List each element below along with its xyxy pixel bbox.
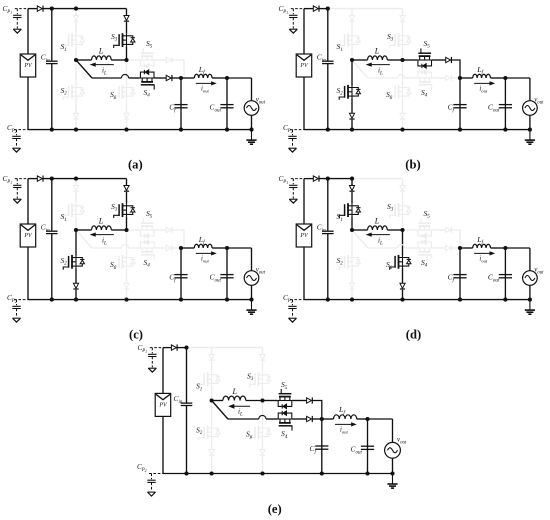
panel e: AC source v_out <box>385 442 401 458</box>
panel c: wire top rail right of D_in <box>43 178 127 180</box>
panel b: ground <box>529 130 531 140</box>
panel d: wire L_f to C_out <box>491 247 506 249</box>
panel a: dashed wire C_P2 to bottom rail <box>14 129 28 131</box>
panel a: input diode D_in <box>37 6 42 11</box>
panel d: wire L left lead <box>352 229 368 231</box>
panel c: wire PV to bottom rail <box>27 247 29 300</box>
panel a: wire top rail <box>28 8 37 10</box>
panel e: switch S5 path (wire + MOSFET + diode) <box>263 400 278 402</box>
svg-text:L: L <box>232 387 238 396</box>
panel b: wire L_f to C_out <box>491 77 506 79</box>
panel d: switch S1 branch (diode + MOSFET) <box>351 179 353 186</box>
panel c: junction dots <box>50 177 54 181</box>
panel e: inductor L <box>223 396 246 400</box>
panel c: wire L right lead <box>111 229 126 231</box>
panel c: AC source v_out <box>244 271 259 286</box>
panel e: capacitor C_in <box>186 348 188 404</box>
panel c: wire L_f to C_out <box>212 247 227 249</box>
panel c: dashed wire C_P2 to bottom rail <box>14 299 28 301</box>
panel a: wire L_f to C_out <box>212 77 227 79</box>
panel b: wire left rail <box>303 9 305 54</box>
panel b: wire v_out to bottom rail <box>529 115 531 129</box>
svg-text:L: L <box>98 46 104 55</box>
panel d: PV source <box>296 224 312 247</box>
panel d: wire L right lead <box>387 229 402 231</box>
panel d: capacitor C_f <box>459 248 461 300</box>
panel e: ground <box>392 474 394 484</box>
panel d: dashed wire C_P2 to bottom rail <box>290 299 304 301</box>
panel e: switch S6 branch (MOSFET + diode) [ghost] <box>262 401 264 427</box>
panel a: AC source v_out <box>244 101 259 116</box>
panel e: dashed wire C_P1 to top rail <box>150 347 163 349</box>
svg-text:PV: PV <box>23 63 33 69</box>
panel e: switch S1 branch (diode + MOSFET) [ghost] <box>211 348 213 355</box>
panel d: junction dots <box>326 177 330 181</box>
panel d: switch S6 branch (MOSFET + diode) <box>402 230 404 256</box>
panel c: inductor L_f <box>181 247 194 249</box>
panel c: input diode D_in <box>37 176 42 181</box>
panel b: switch S6 branch (MOSFET + diode) [ghost] <box>402 60 404 86</box>
panel c: wire top rail <box>28 178 37 180</box>
panel c: wire bottom rail <box>28 299 181 301</box>
panel a: wire L left lead <box>76 59 92 61</box>
panel b: switch S5 path (MOSFET + diode) <box>403 59 418 61</box>
panel c: wire v_out to bottom rail <box>251 285 253 299</box>
panel b: input diode D_in <box>313 6 318 11</box>
panel e: ghost wire top rail remainder <box>187 347 263 349</box>
panel d: wire top rail right of D_in <box>319 178 352 180</box>
panel e: dashed wire C_P2 to bottom rail <box>149 473 163 475</box>
panel b: wire L right lead <box>387 59 402 61</box>
panel c: switch S1 branch (diode + MOSFET) [ghost] <box>75 179 77 186</box>
panel a: PV source <box>20 54 36 77</box>
panel b: junction dots <box>326 7 330 11</box>
panel b: wire top rail <box>304 8 313 10</box>
panel e: wire L_f to C_out <box>357 418 368 420</box>
panel c: capacitor C_f <box>180 248 182 300</box>
panel c: wire L left lead <box>76 229 92 231</box>
panel b: switch S2 branch (MOSFET + diode) <box>351 60 353 86</box>
panel b: wire L left lead <box>352 59 368 61</box>
panel a: capacitor C_f <box>180 78 182 130</box>
panel d: switch S5 path (MOSFET + diode) [ghost] <box>403 229 418 231</box>
panel a: wire to v_out <box>227 77 252 79</box>
panel b: inductor L_f <box>460 77 473 79</box>
panel d: switch S2 branch (MOSFET + diode) [ghost] <box>351 230 353 256</box>
panel c: capacitor C_out <box>226 248 228 300</box>
svg-text:L: L <box>98 216 104 225</box>
panel e: switch S4 path (diagonal + hop + MOSFET + diode) <box>212 401 228 420</box>
panel b: capacitor C_in <box>327 9 329 62</box>
panel e: capacitor C_f <box>321 419 323 474</box>
panel d: wire top rail <box>304 178 313 180</box>
panel b: capacitor C_f <box>459 78 461 130</box>
panel d: current arrow i_L <box>371 234 390 236</box>
panel d: ground <box>529 300 531 310</box>
panel a: dashed wire C_P1 to top rail <box>15 8 28 10</box>
svg-text:(a): (a) <box>128 157 143 171</box>
panel b: AC source v_out <box>523 101 538 116</box>
svg-text:PV: PV <box>158 403 168 409</box>
panel d: switch S3 branch (diode + MOSFET) [ghost] <box>402 179 404 186</box>
panel b: inductor L <box>368 56 388 60</box>
panel b: switch S3 branch (diode + MOSFET) [ghost] <box>402 9 404 16</box>
panel c: wire left rail <box>27 179 29 224</box>
svg-text:L: L <box>374 216 380 225</box>
panel b: wire top rail right of D_in <box>319 8 328 10</box>
panel b: switch S4 path (diagonal + MOSFET + diode) [ghost] <box>352 60 368 78</box>
panel e: switch S3 branch (diode + MOSFET) [ghost] <box>262 348 264 355</box>
panel a: current arrow i_out <box>196 82 213 84</box>
panel e: switch S2 branch (MOSFET + diode) [ghost] <box>211 401 213 427</box>
panel d: wire bottom rail <box>304 299 460 301</box>
panel c: capacitor C_in <box>51 179 53 232</box>
panel a: switch S4 path (diagonal + MOSFET + diode) <box>76 60 92 78</box>
panel a: wire left rail <box>27 9 29 54</box>
panel d: wire v_out to bottom rail <box>529 285 531 299</box>
panel e: PV source <box>155 393 171 416</box>
panel a: capacitor C_out <box>226 78 228 130</box>
panel e: wire L right lead <box>246 400 263 402</box>
svg-text:L: L <box>374 46 380 55</box>
svg-text:(e): (e) <box>268 502 282 516</box>
panel e: wire top rail <box>163 347 171 349</box>
panel e: current arrow i_L <box>233 405 250 407</box>
panel c: wire to v_out <box>227 247 252 249</box>
panel b: capacitor C_out <box>504 78 506 130</box>
svg-text:PV: PV <box>299 233 309 239</box>
panel a: switch S5 path (MOSFET + diode) [ghost] <box>127 59 140 61</box>
panel e: wire PV to bottom rail <box>162 416 164 473</box>
panel a: wire bottom rail <box>28 129 181 131</box>
panel a: switch S1 branch (diode + MOSFET) [ghost] <box>75 9 77 16</box>
panel d: current arrow i_out <box>474 252 491 254</box>
panel a: inductor L_f <box>181 77 194 79</box>
panel d: wire left rail <box>303 179 305 224</box>
panel e: wire left rail <box>162 348 164 394</box>
panel b: wire bottom rail <box>304 129 460 131</box>
panel d: inductor L_f <box>460 247 473 249</box>
panel d: inductor L <box>368 226 388 230</box>
panel e: wire top rail right of D_in <box>177 347 187 349</box>
panel d: wire to v_out <box>505 247 530 249</box>
panel c: switch S5 path (MOSFET + diode) [ghost] <box>127 229 140 231</box>
panel a: inductor L <box>92 56 112 60</box>
panel c: dashed wire C_P1 to top rail <box>15 178 28 180</box>
panel c: PV source <box>20 224 36 247</box>
panel e: wire to v_out <box>368 418 393 420</box>
panel b: wire to v_out <box>505 77 530 79</box>
panel e: wire L left lead <box>212 400 223 402</box>
panel a: junction dots <box>50 7 54 11</box>
panel c: inductor L <box>92 226 112 230</box>
svg-text:PV: PV <box>23 233 33 239</box>
panel c: switch S4 path (diagonal + MOSFET + diode) [ghost] <box>76 230 92 248</box>
svg-text:(d): (d) <box>406 328 421 342</box>
panel a: wire L right lead <box>111 59 126 61</box>
panel d: AC source v_out <box>523 271 538 286</box>
panel d: ghost wire top rail remainder <box>352 178 403 180</box>
panel b: wire PV to bottom rail <box>303 77 305 130</box>
panel a: wire top rail right of D_in <box>43 8 127 10</box>
panel d: input diode D_in <box>313 176 318 181</box>
panel d: dashed wire C_P1 to top rail <box>291 178 304 180</box>
panel d: capacitor C_in <box>327 179 329 232</box>
panel b: ghost wire top rail remainder <box>328 8 403 10</box>
panel e: wire bottom rail <box>163 473 393 475</box>
panel a: capacitor C_in <box>51 9 53 62</box>
svg-text:PV: PV <box>299 63 309 69</box>
panel a: wire PV to bottom rail <box>27 77 29 130</box>
panel b: current arrow i_out <box>474 82 491 84</box>
panel b: PV source <box>296 54 312 77</box>
panel d: switch S4 path (diagonal + MOSFET + diode) [ghost] <box>352 230 368 248</box>
panel d: wire PV to bottom rail <box>303 247 305 300</box>
panel e: junction dots <box>184 346 188 350</box>
panel a: current arrow i_L <box>95 64 114 66</box>
svg-text:(b): (b) <box>405 157 420 171</box>
panel e: inductor L_f <box>322 418 334 420</box>
panel c: current arrow i_L <box>95 234 114 236</box>
panel a: wire v_out to bottom rail <box>251 115 253 129</box>
panel e: capacitor C_out <box>367 419 369 474</box>
panel c: current arrow i_out <box>196 252 213 254</box>
panel c: switch S6 branch (MOSFET + diode) [ghost] <box>126 230 128 256</box>
panel e: input diode D_in <box>171 345 176 350</box>
panel b: switch S1 branch (diode + MOSFET) [ghost] <box>351 9 353 16</box>
panel c: switch S3 branch (diode + MOSFET) <box>126 179 128 186</box>
panel a: ground <box>251 130 253 140</box>
panel e: wire v_out to bottom rail <box>392 458 394 473</box>
panel a: switch S2 branch (MOSFET + diode) [ghost] <box>75 60 77 86</box>
panel a: switch S3 branch (diode + MOSFET) <box>126 9 128 16</box>
panel d: capacitor C_out <box>504 248 506 300</box>
panel b: current arrow i_L <box>371 64 390 66</box>
panel c: switch S2 branch (MOSFET + diode) <box>75 230 77 256</box>
panel e: current arrow i_out <box>335 423 353 425</box>
panel a: switch S6 branch (MOSFET + diode) [ghost] <box>126 60 128 86</box>
panel c: ground <box>251 300 253 310</box>
panel b: dashed wire C_P1 to top rail <box>291 8 304 10</box>
svg-text:(c): (c) <box>129 328 143 342</box>
panel b: dashed wire C_P2 to bottom rail <box>290 129 304 131</box>
